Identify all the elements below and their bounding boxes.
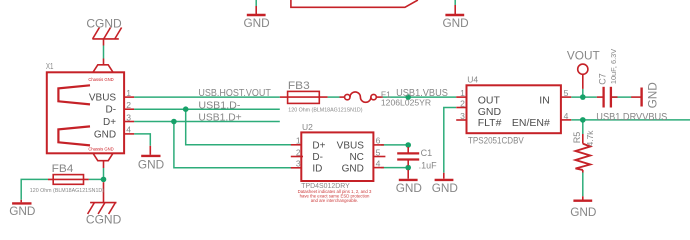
svg-text:1: 1 [460, 88, 465, 98]
svg-text:1206L025YR: 1206L025YR [381, 97, 431, 107]
svg-text:4: 4 [126, 125, 131, 135]
svg-text:and are interchangeable.: and are interchangeable. [311, 198, 359, 203]
svg-text:2: 2 [296, 147, 301, 157]
svg-text:120 Ohm (BLM18AG121SN1D): 120 Ohm (BLM18AG121SN1D) [30, 188, 104, 194]
svg-text:3: 3 [126, 112, 131, 122]
svg-text:3: 3 [460, 111, 465, 121]
svg-text:CGND: CGND [86, 17, 122, 31]
svg-text:3: 3 [296, 159, 301, 169]
svg-text:USB1.D+: USB1.D+ [198, 113, 241, 124]
svg-text:USB1.DRVVBUS: USB1.DRVVBUS [596, 112, 667, 123]
svg-text:D-: D- [106, 105, 117, 116]
svg-text:X1: X1 [46, 61, 54, 71]
svg-text:GND: GND [478, 106, 502, 118]
svg-text:GND: GND [243, 16, 269, 30]
svg-text:OUT: OUT [478, 94, 501, 106]
svg-text:GND: GND [570, 205, 596, 219]
svg-text:R5: R5 [572, 132, 582, 144]
svg-text:5: 5 [564, 88, 569, 98]
svg-text:FB3: FB3 [288, 80, 310, 92]
svg-text:C1: C1 [421, 148, 433, 158]
svg-text:5: 5 [376, 147, 381, 157]
svg-text:1: 1 [296, 136, 301, 146]
svg-text:4: 4 [564, 111, 569, 121]
svg-text:2: 2 [460, 98, 465, 108]
svg-text:IN: IN [539, 94, 550, 106]
svg-text:D-: D- [312, 152, 323, 163]
svg-text:USB.HOST.VOUT: USB.HOST.VOUT [198, 88, 271, 99]
svg-text:TPS2051CDBV: TPS2051CDBV [468, 136, 525, 146]
svg-text:FB4: FB4 [52, 163, 74, 175]
svg-text:.1uF: .1uF [419, 161, 438, 171]
svg-text:D+: D+ [312, 140, 325, 151]
svg-text:GND: GND [432, 181, 458, 195]
svg-text:VOUT: VOUT [567, 48, 600, 62]
svg-text:1: 1 [126, 88, 131, 98]
svg-text:GND: GND [442, 16, 468, 30]
svg-text:2: 2 [126, 100, 131, 110]
svg-text:USB1.D-: USB1.D- [198, 100, 240, 111]
svg-text:D+: D+ [103, 117, 116, 128]
svg-text:ID: ID [312, 163, 322, 174]
svg-text:GND: GND [646, 82, 660, 108]
svg-text:U4: U4 [467, 75, 478, 85]
svg-text:VBUS: VBUS [89, 93, 117, 104]
svg-text:GND: GND [138, 157, 164, 171]
svg-text:4: 4 [376, 159, 381, 169]
svg-text:FLT#: FLT# [478, 117, 502, 129]
svg-text:U2: U2 [302, 122, 313, 132]
svg-text:VBUS: VBUS [337, 140, 365, 151]
svg-text:C7: C7 [598, 73, 608, 85]
svg-text:CGND: CGND [86, 213, 122, 227]
svg-text:NC: NC [349, 152, 363, 163]
svg-text:6: 6 [376, 136, 381, 146]
svg-text:GND: GND [9, 204, 35, 218]
svg-text:120 Ohm (BLM18AG121SN1D): 120 Ohm (BLM18AG121SN1D) [288, 107, 362, 113]
svg-text:EN/EN#: EN/EN# [512, 117, 550, 129]
svg-text:Chassis GND: Chassis GND [88, 77, 113, 82]
svg-text:GND: GND [342, 163, 364, 174]
svg-text:4.7k: 4.7k [585, 130, 595, 147]
svg-text:10uF, 6.3V: 10uF, 6.3V [609, 49, 618, 84]
svg-text:GND: GND [396, 181, 422, 195]
svg-text:GND: GND [94, 129, 116, 140]
svg-text:Chassis GND: Chassis GND [88, 147, 113, 152]
